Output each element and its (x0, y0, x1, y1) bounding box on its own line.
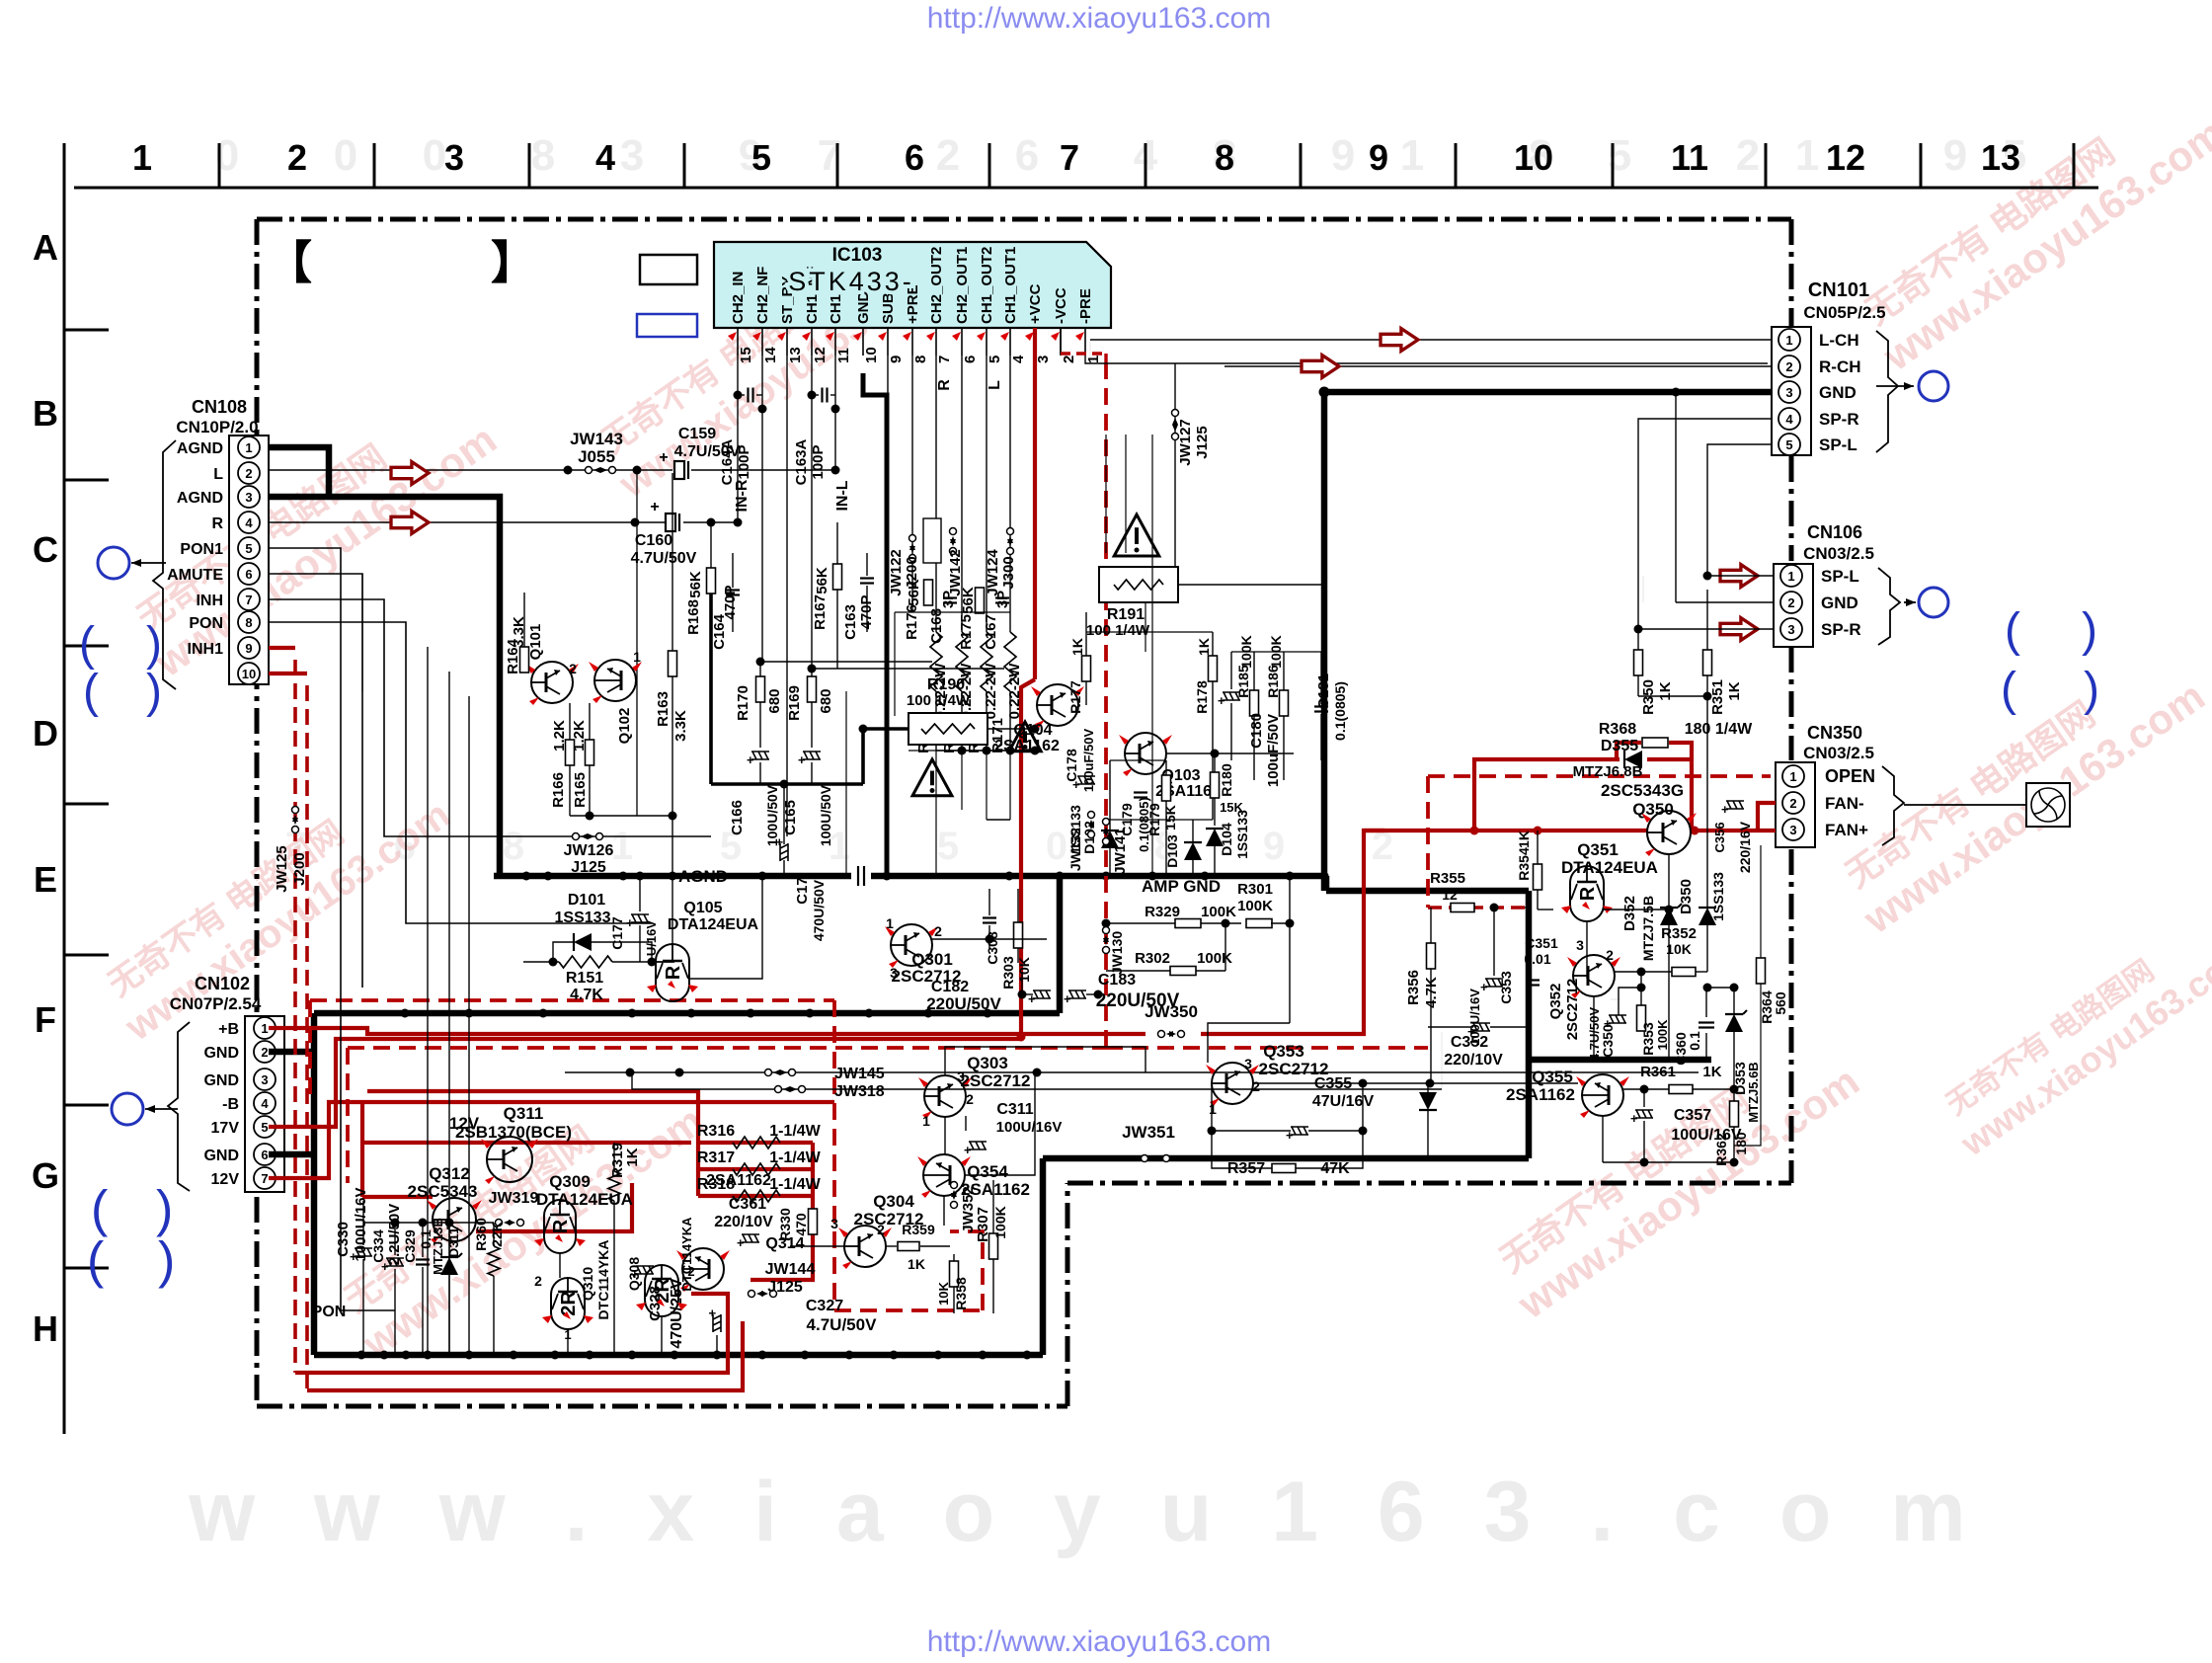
svg-text:0: 0 (334, 131, 357, 180)
wire R-CH long (1224, 365, 1772, 367)
svg-text:R170: R170 (735, 685, 751, 721)
svg-text:R: R (1577, 886, 1599, 901)
svg-text:47U/16V: 47U/16V (1312, 1093, 1375, 1110)
wire Q309 bottom (559, 1253, 561, 1278)
wire Q351 base link (1603, 909, 1669, 911)
svg-text:R329: R329 (1145, 904, 1180, 920)
svg-text:2SA1162: 2SA1162 (1506, 1085, 1575, 1104)
svg-text:1SS133: 1SS133 (1234, 810, 1250, 859)
svg-text:C352: C352 (1451, 1034, 1488, 1051)
svg-text:C159: C159 (678, 426, 716, 442)
svg-text:JW130: JW130 (1109, 931, 1125, 976)
svg-text:+: + (626, 915, 634, 930)
svg-text:5: 5 (937, 825, 959, 868)
svg-text:DTC114YKA: DTC114YKA (679, 1217, 694, 1292)
svg-text:): ) (146, 618, 162, 671)
op-amp U IC103 STK433 body (714, 242, 1111, 328)
wire CN102 GND pin6 thick (269, 1151, 314, 1158)
wire dashed red OPEN drop (1426, 776, 1430, 908)
svg-text:1K: 1K (1069, 638, 1085, 656)
wire D350 stem (1706, 925, 1708, 972)
svg-text:10: 10 (863, 347, 880, 363)
pink watermark right-top (1849, 73, 2212, 380)
svg-text:4.7K: 4.7K (570, 987, 603, 1003)
svg-text:100U/16V: 100U/16V (996, 1119, 1063, 1136)
wires IC pin verticals (737, 356, 739, 522)
transistor Q311 (487, 1137, 532, 1182)
svg-text:Q104: Q104 (1013, 722, 1052, 739)
svg-text:9: 9 (888, 356, 905, 363)
resistor R176 (924, 580, 933, 605)
wire PON1 fan (269, 548, 395, 1310)
wire AMUTE fan (269, 574, 362, 988)
svg-text:8: 8 (245, 615, 252, 630)
svg-text:470U/50V: 470U/50V (811, 879, 827, 941)
svg-text:D103: D103 (1164, 834, 1180, 868)
svg-text:C357: C357 (1674, 1107, 1711, 1124)
svg-text:R-CH: R-CH (1819, 357, 1861, 376)
svg-text:+: + (798, 752, 806, 767)
svg-text:F: F (35, 999, 56, 1040)
svg-text:A: A (33, 227, 58, 268)
svg-text:14: 14 (762, 347, 779, 363)
wire Q312 base red (362, 1195, 433, 1199)
svg-text:R163: R163 (655, 691, 671, 727)
wire Q303-Q354 link (944, 1117, 946, 1154)
svg-text:IC103: IC103 (832, 245, 883, 266)
svg-text:6: 6 (905, 137, 924, 178)
resistor R317 (733, 1163, 780, 1175)
svg-text:1: 1 (1400, 131, 1424, 180)
svg-text:+: + (1286, 1128, 1294, 1143)
svg-text:Q311: Q311 (504, 1104, 544, 1123)
svg-text:AMUTE: AMUTE (167, 567, 223, 584)
capacitor C182 (1028, 990, 1051, 1006)
transistor Q314 (682, 1248, 724, 1290)
pink watermark center-bottom (328, 1061, 712, 1368)
svg-text:MTZJ13B: MTZJ13B (431, 1218, 445, 1275)
svg-text:U/16V: U/16V (644, 920, 659, 956)
svg-text:J055: J055 (578, 447, 615, 466)
svg-text:OPEN: OPEN (1825, 766, 1875, 786)
svg-text:+: + (650, 499, 659, 515)
svg-text:9: 9 (1263, 825, 1285, 868)
jumper JW351 (1142, 1155, 1148, 1162)
svg-text:Q105: Q105 (683, 900, 722, 916)
wire CN101 GND dot (1319, 387, 1330, 398)
svg-text:2R: 2R (652, 1278, 673, 1304)
wire R31x mid (631, 1183, 633, 1231)
svg-text:2: 2 (936, 131, 960, 180)
wire Q301 links (932, 938, 989, 940)
wire output trunk thick (709, 594, 713, 784)
wire 17V sub red (367, 1091, 698, 1143)
svg-text:3: 3 (830, 1216, 838, 1231)
svg-text:R301: R301 (1237, 881, 1273, 898)
svg-text:R368: R368 (1599, 721, 1636, 738)
resistor R178 (1209, 656, 1218, 681)
jumper JW130 (1103, 927, 1110, 934)
svg-text:GND: GND (1819, 383, 1856, 402)
resistor R352 (1672, 968, 1696, 977)
svg-text:C356: C356 (1712, 822, 1727, 852)
svg-text:13: 13 (1981, 137, 2020, 178)
capacitor C163 (860, 577, 874, 579)
wire R31x right riser red (811, 1143, 815, 1242)
CN101 brace (1876, 331, 1898, 452)
jumper JW126 (573, 833, 580, 840)
svg-text:http://www.xiaoyu163.com: http://www.xiaoyu163.com (927, 2, 1272, 35)
svg-text:1: 1 (245, 440, 252, 455)
diode D102 (1101, 831, 1119, 848)
transistor Q104 (1037, 684, 1078, 726)
wires center texture verticals (935, 751, 937, 876)
svg-text:2: 2 (877, 1222, 885, 1237)
resistor R167 (833, 564, 842, 590)
svg-text:Q309: Q309 (549, 1172, 591, 1191)
svg-text:7: 7 (261, 1171, 268, 1186)
resistor R151 (559, 956, 612, 968)
svg-text:4: 4 (245, 515, 253, 530)
svg-text:5: 5 (261, 1120, 268, 1135)
svg-text:6: 6 (245, 567, 252, 582)
svg-text:Q354: Q354 (967, 1162, 1008, 1181)
wire INH1 red stub (269, 646, 295, 650)
wire Q350 red row (1364, 829, 1647, 832)
svg-text:5: 5 (751, 137, 771, 178)
svg-text:R168: R168 (685, 599, 702, 635)
svg-text:1: 1 (261, 1021, 268, 1036)
transistor Q350 (1647, 811, 1691, 854)
svg-text:R359: R359 (902, 1222, 935, 1237)
capacitor series on AGND bus (857, 866, 859, 886)
diode D104 (1206, 829, 1224, 846)
svg-text:+VCC: +VCC (1027, 283, 1044, 324)
svg-text:(: ( (91, 1181, 109, 1238)
svg-text:SUB: SUB (880, 292, 897, 324)
jumper JW144 (749, 1291, 755, 1298)
wire JW318 line (632, 1072, 1442, 1089)
resistor R318 (733, 1190, 780, 1202)
wire JW351 GND bus thick (1043, 1155, 1529, 1162)
svg-text:100uF/50V: 100uF/50V (1081, 729, 1096, 793)
capacitor C179b (1134, 791, 1147, 793)
arrow L signal (391, 462, 429, 485)
svg-text:56K: 56K (687, 571, 704, 598)
wire JW350 red right (1201, 831, 1384, 1034)
svg-text:1-1/4W: 1-1/4W (769, 1149, 821, 1166)
svg-text:CH2_IN: CH2_IN (730, 272, 747, 324)
svg-text:R177: R177 (1067, 680, 1083, 714)
svg-text:R165: R165 (572, 772, 589, 808)
svg-text:B: B (33, 393, 58, 434)
svg-text:3: 3 (1789, 823, 1796, 837)
pink watermark left-top (120, 379, 505, 686)
svg-text:+: + (747, 752, 754, 767)
jumper JW350 (1158, 1031, 1165, 1038)
svg-text:3: 3 (444, 137, 464, 178)
CN350 brace (1882, 766, 1904, 845)
jumper JW319 (496, 1220, 503, 1227)
svg-text:w w w . x i a o y u 1 6 3 . c: w w w . x i a o y u 1 6 3 . c o m (188, 1465, 1984, 1559)
wire diag net (1441, 1032, 1443, 1089)
svg-text:INH: INH (196, 593, 223, 609)
transistor Q312 (433, 1198, 476, 1241)
svg-text:): ) (2082, 604, 2097, 657)
svg-text:11: 11 (835, 348, 852, 363)
svg-text:C334: C334 (370, 1229, 386, 1263)
legend box black (640, 255, 697, 284)
svg-text:4.7U/50V: 4.7U/50V (631, 550, 697, 567)
svg-text:+: + (1064, 991, 1071, 1006)
svg-text:2: 2 (934, 923, 942, 939)
svg-text:3: 3 (1785, 385, 1792, 400)
svg-text:4: 4 (1010, 355, 1027, 363)
transistor Q310 (551, 1278, 585, 1329)
svg-text:CN108: CN108 (192, 397, 247, 417)
svg-text:MTZJ5.6B: MTZJ5.6B (1746, 1062, 1761, 1122)
svg-text:2: 2 (1252, 1078, 1260, 1094)
capacitor C334 (381, 1258, 404, 1274)
svg-text:R190: R190 (927, 676, 965, 693)
node -B output circle (112, 1093, 143, 1125)
wire INH fan (269, 599, 711, 836)
wire top feed R350 (1642, 576, 1644, 602)
wire Q105 base link (657, 961, 674, 963)
transistor Q103 (1125, 733, 1166, 774)
svg-text:http://www.xiaoyu163.com: http://www.xiaoyu163.com (927, 1625, 1272, 1658)
svg-text:JW143: JW143 (570, 430, 623, 448)
capacitor C168 (943, 596, 957, 598)
svg-text:】: 】 (491, 237, 536, 288)
wire CN101 GND thick (1324, 392, 1772, 891)
jumper JW132 (1088, 812, 1095, 819)
wires center texture horizontals (895, 611, 1010, 613)
svg-text:CN03/2.5: CN03/2.5 (1803, 744, 1874, 762)
svg-text:H: H (33, 1308, 58, 1349)
CN108 brace (153, 440, 176, 689)
wire AGND pin1 thick (269, 447, 329, 497)
svg-text:IN-L: IN-L (834, 480, 851, 511)
svg-text:6: 6 (962, 356, 979, 363)
svg-text:1: 1 (1085, 356, 1102, 363)
transistor Q351 (1570, 866, 1604, 921)
resistor R303 (1014, 922, 1023, 948)
grid ruler (74, 187, 2098, 190)
resistor R355b (1451, 904, 1474, 912)
transistor Q308 (645, 1265, 678, 1316)
svg-text:C177: C177 (609, 916, 625, 950)
svg-text:R191: R191 (1107, 606, 1145, 623)
resistor R351 (1703, 650, 1712, 675)
wire INH1 red drop dashed (293, 660, 297, 1373)
resistor R180b (1211, 772, 1220, 798)
resistor R359 (898, 1242, 919, 1251)
svg-text:CH2_NF: CH2_NF (754, 267, 771, 324)
wire Q35x GND bus thick (1529, 1057, 1711, 1064)
resistor R361 (1669, 1085, 1693, 1094)
svg-text:2SA1162: 2SA1162 (994, 738, 1060, 754)
svg-text:R169: R169 (786, 685, 803, 721)
capacitor C178 (1072, 776, 1095, 792)
svg-text:1K: 1K (1196, 638, 1212, 656)
svg-text:Q352: Q352 (1547, 984, 1564, 1020)
svg-text:JW351: JW351 (1122, 1123, 1175, 1142)
wire ctrl long1 (361, 574, 363, 691)
svg-text:C351: C351 (1525, 935, 1558, 951)
jumper JW127 (1172, 410, 1179, 417)
svg-text:3: 3 (1244, 1056, 1252, 1071)
svg-text:): ) (156, 1181, 173, 1238)
wire Q351 emitter (1586, 921, 1588, 979)
wire -VCC dashed horizontal (348, 1046, 1106, 1050)
svg-text:L-CH: L-CH (1819, 331, 1859, 350)
svg-text:G: G (32, 1155, 59, 1196)
capacitor C17 (772, 838, 788, 861)
resistor R354 (1534, 864, 1542, 890)
capacitor C165 (798, 752, 821, 767)
svg-text:+B: +B (218, 1021, 239, 1038)
svg-text:2: 2 (261, 1045, 268, 1060)
thick L C182 (1059, 872, 1061, 1013)
svg-text:11: 11 (1671, 137, 1708, 178)
svg-text:J200: J200 (904, 556, 920, 589)
svg-text:15: 15 (738, 347, 754, 363)
svg-text:2: 2 (287, 137, 307, 178)
svg-text:JW122: JW122 (888, 549, 905, 596)
resistor R175 (976, 588, 985, 613)
svg-text:Q351: Q351 (1577, 840, 1619, 859)
svg-text:FAN-: FAN- (1825, 794, 1864, 813)
svg-text:C163A: C163A (793, 438, 810, 485)
svg-text:1000U/16V: 1000U/16V (353, 1187, 369, 1261)
svg-text:8: 8 (1215, 137, 1234, 178)
wire ctrl cross1 (427, 647, 429, 1355)
wire R352 link (1641, 971, 1672, 973)
svg-text:CN102: CN102 (195, 974, 250, 993)
svg-text:INH1: INH1 (188, 641, 224, 658)
svg-text:1K: 1K (908, 1256, 925, 1272)
resistor R186 (1280, 690, 1289, 716)
capacitor C350 (1604, 1015, 1626, 1031)
svg-text:E: E (34, 859, 57, 900)
svg-text:8: 8 (912, 356, 929, 363)
wire dashed red bottom row (834, 1308, 983, 1312)
svg-text:Q303: Q303 (967, 1054, 1008, 1072)
wire CN102 GND pin2 thick (269, 1049, 314, 1056)
svg-text:1: 1 (1795, 131, 1819, 180)
svg-text:5: 5 (1608, 131, 1631, 180)
wire AGND bus E-row left (494, 873, 851, 880)
capacitor C163A (812, 394, 819, 396)
svg-text:470P: 470P (722, 585, 739, 619)
arrow into CN106 pin3 (1720, 618, 1758, 641)
svg-text:4: 4 (595, 137, 615, 178)
svg-text:1K: 1K (1726, 681, 1743, 700)
svg-text:0.22-2W: 0.22-2W (983, 663, 999, 720)
svg-text:1: 1 (611, 825, 633, 868)
svg-text:680: 680 (818, 688, 834, 713)
svg-text:JW318: JW318 (834, 1083, 885, 1100)
pink watermark far-right-bottom (1932, 902, 2212, 1164)
svg-text:SP-L: SP-L (1819, 436, 1857, 454)
svg-text:220/10V: 220/10V (1444, 1052, 1503, 1069)
svg-text:6: 6 (1015, 131, 1039, 180)
svg-text:R352: R352 (1661, 925, 1697, 942)
svg-text:GND: GND (203, 1045, 239, 1062)
resistor R357 (1272, 1164, 1296, 1173)
svg-text:17V: 17V (211, 1120, 240, 1137)
svg-text:(: ( (83, 666, 99, 718)
svg-text:3: 3 (957, 1069, 965, 1084)
wire power cluster top (363, 1222, 494, 1224)
wire 12V branch red (360, 1102, 364, 1197)
svg-text:JW127: JW127 (1177, 419, 1194, 466)
svg-text:CN03/2.5: CN03/2.5 (1803, 544, 1874, 563)
svg-text:J200: J200 (291, 852, 308, 885)
wire Q352 net (1593, 996, 1595, 1060)
warning triangle 2 (1009, 722, 1041, 752)
svg-text:C327: C327 (806, 1298, 843, 1314)
svg-text:DTA124EUA: DTA124EUA (1561, 858, 1658, 877)
wire dashed red mid drop (832, 1000, 836, 1310)
svg-text:R164: R164 (505, 638, 521, 674)
svg-text:7: 7 (1060, 137, 1079, 178)
svg-text:4.7U/50V: 4.7U/50V (807, 1315, 878, 1334)
wire Q308 bottom (661, 1316, 663, 1355)
node PON1 output circle (98, 547, 129, 579)
diode D350 (1698, 908, 1716, 925)
svg-text:CN350: CN350 (1807, 723, 1862, 743)
svg-text:1K: 1K (624, 1148, 641, 1166)
svg-text:1SS133: 1SS133 (1710, 872, 1726, 921)
svg-text:R354: R354 (1516, 847, 1532, 881)
svg-text:C178: C178 (1064, 749, 1079, 782)
svg-text:10: 10 (242, 667, 256, 681)
svg-text:3: 3 (1787, 622, 1794, 637)
wire R355 net (1490, 904, 1499, 912)
svg-text:R: R (550, 1219, 572, 1233)
wire +VCC red jog (1021, 679, 1035, 1039)
wire GND IC pin10 thick (863, 373, 887, 876)
svg-text:JW132: JW132 (1067, 828, 1083, 872)
svg-text:C182: C182 (931, 979, 969, 995)
svg-text:Q304: Q304 (873, 1192, 914, 1211)
wire C327 red link (691, 1294, 728, 1310)
svg-text:100P: 100P (810, 444, 827, 479)
wire SP-R feed (1638, 419, 1772, 629)
svg-text:0.1: 0.1 (1687, 1031, 1702, 1051)
capacitor C330 (350, 1248, 372, 1264)
svg-text:): ) (158, 1232, 175, 1290)
wire top right net2 (1151, 435, 1153, 585)
capacitor C160 (666, 514, 675, 531)
jumper JW124 (1007, 528, 1014, 535)
svg-text:PON: PON (312, 1304, 347, 1320)
svg-text:0.22-2W: 0.22-2W (1006, 663, 1023, 720)
svg-text:6: 6 (261, 1148, 268, 1162)
resistor R166 (566, 740, 575, 765)
svg-text:1K: 1K (1657, 681, 1674, 700)
svg-text:2: 2 (534, 1273, 542, 1289)
svg-text:220/10V: 220/10V (714, 1214, 773, 1230)
wire R318 row red (698, 1194, 813, 1198)
transistor Q309 (544, 1200, 576, 1253)
wire R355 red (1428, 906, 1525, 910)
wire dashed red 1061 right ext (1106, 1046, 1428, 1050)
svg-text:Q350: Q350 (1632, 800, 1674, 819)
wire C355 net (1212, 1083, 1291, 1131)
